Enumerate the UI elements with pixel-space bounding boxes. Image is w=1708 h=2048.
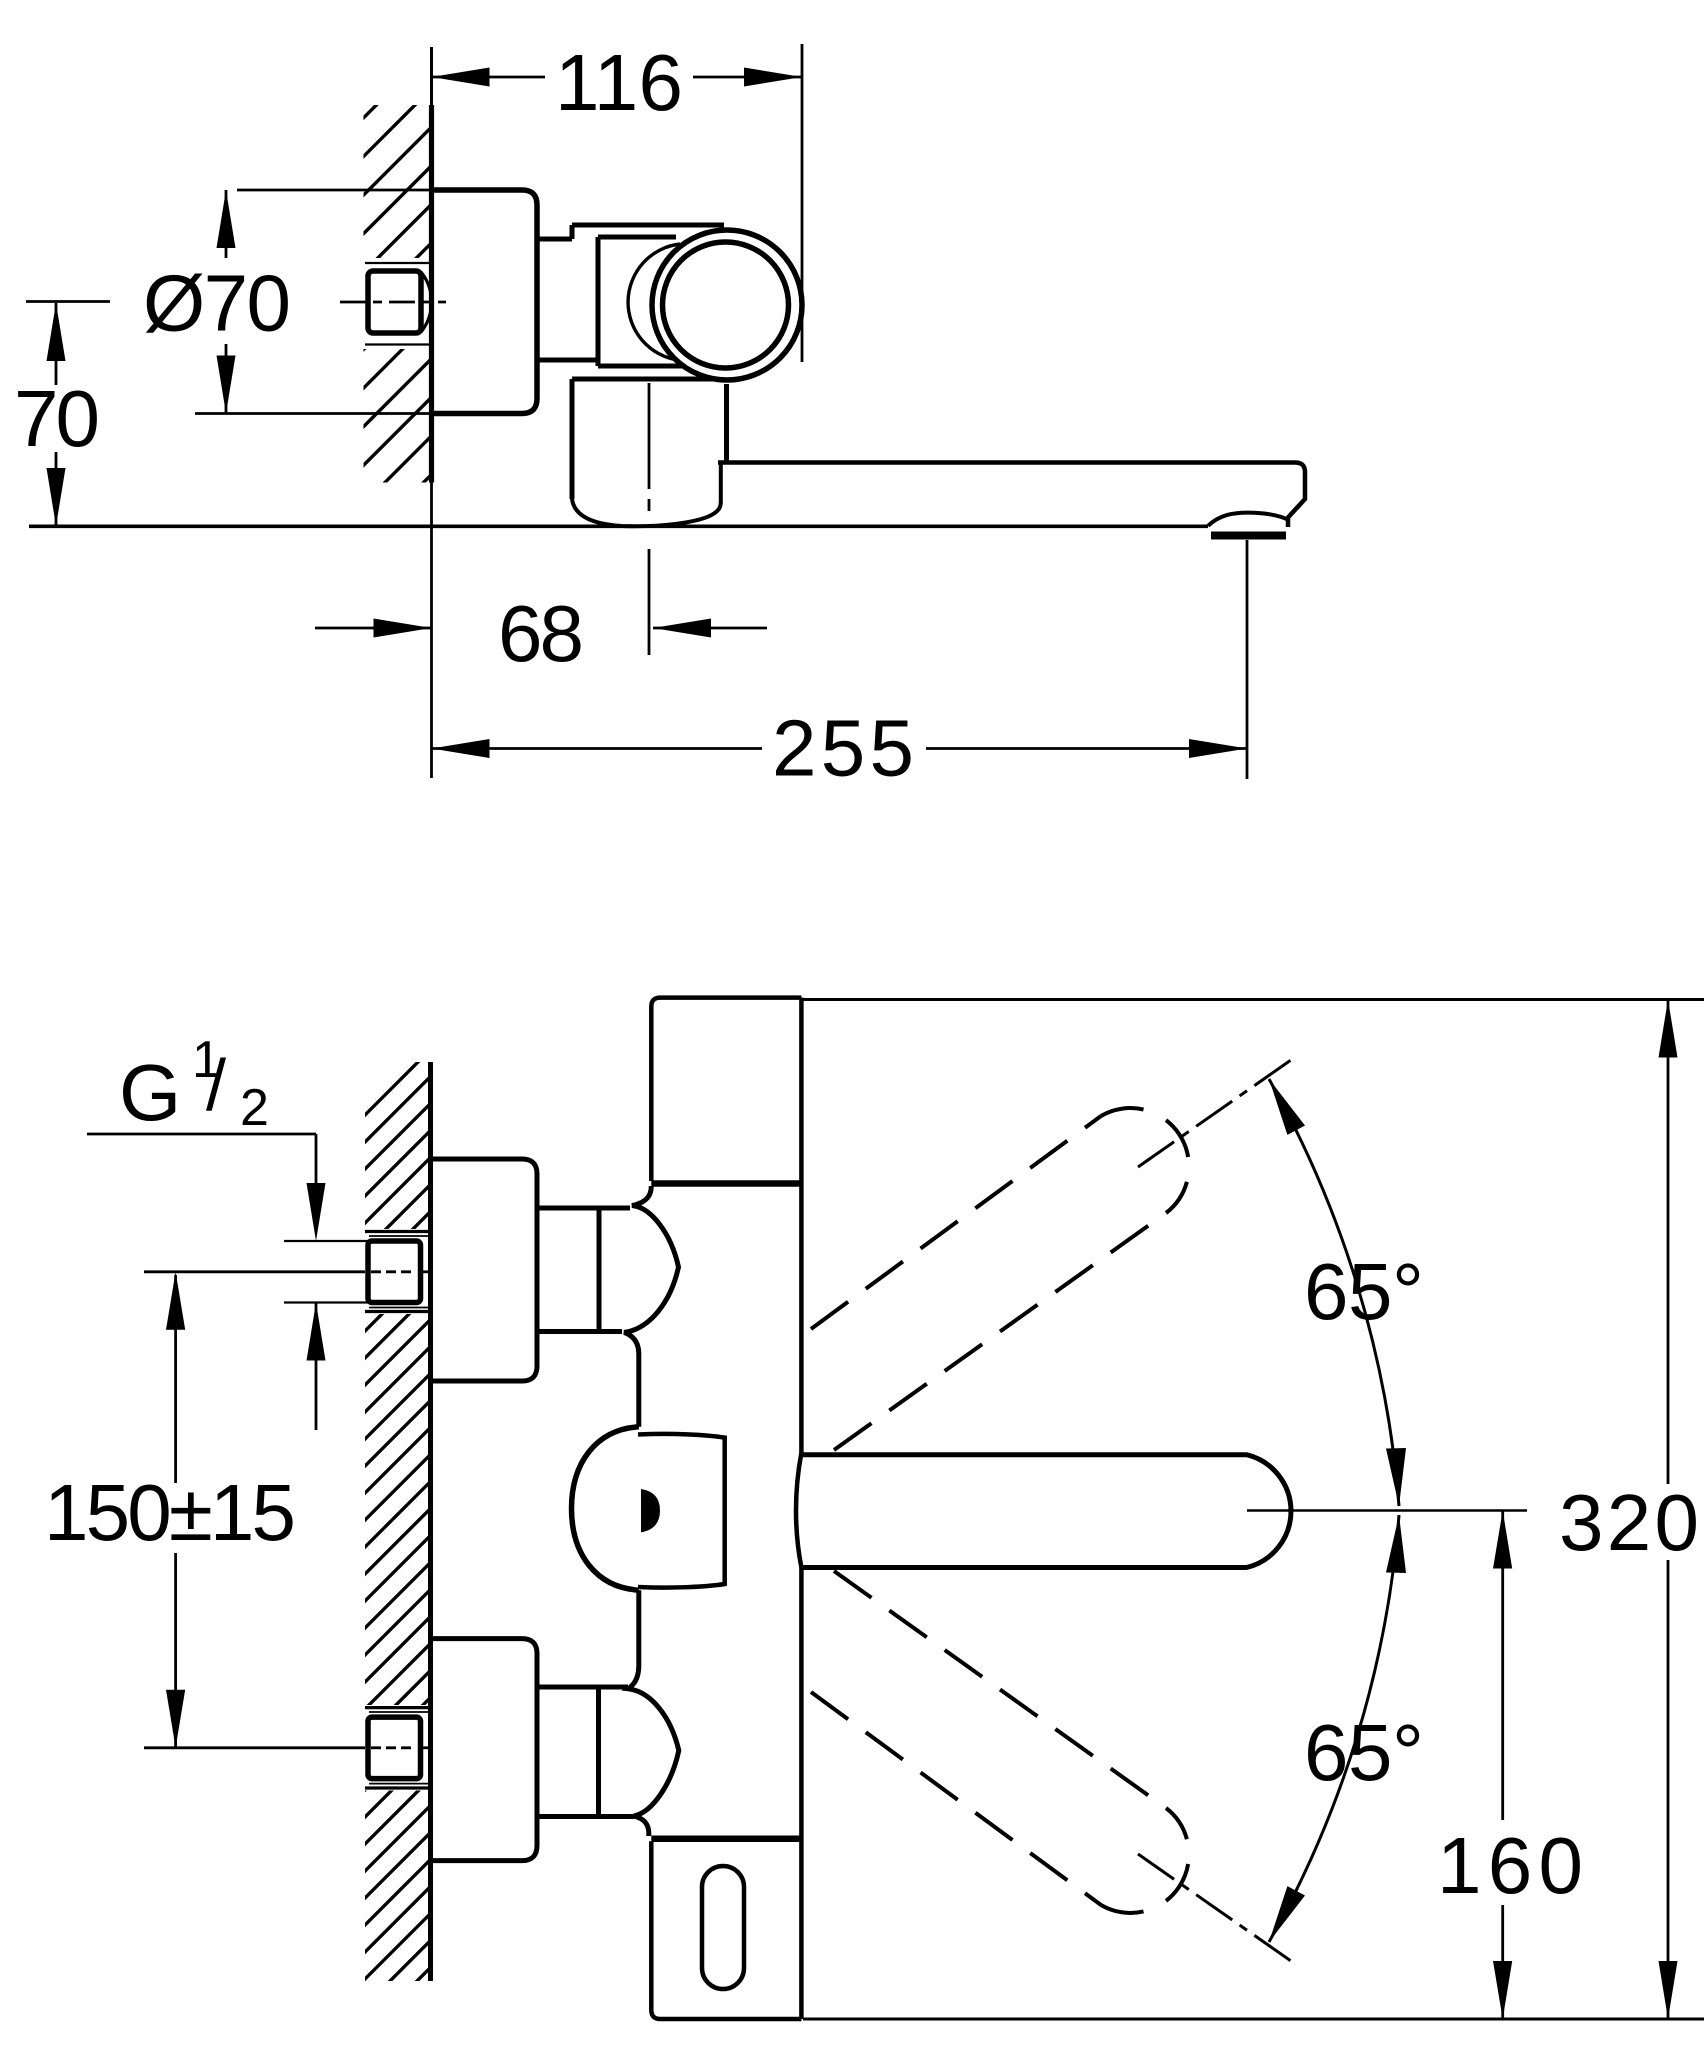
- lower dashed lever position: [811, 1571, 1291, 1961]
- svg-text:65°: 65°: [1304, 1708, 1424, 1797]
- G 1/2 label and leader: [87, 1031, 326, 1430]
- spout tube (top view): [718, 463, 1305, 536]
- lower union nut: [537, 1687, 634, 1817]
- floor reference line: [29, 524, 1208, 528]
- escutcheon flange (top view): [433, 190, 537, 414]
- dimension 68: [315, 589, 767, 678]
- lever base arc: [796, 1453, 801, 1568]
- svg-text:116: 116: [555, 38, 683, 127]
- svg-text:2: 2: [240, 1079, 269, 1137]
- svg-text:65°: 65°: [1304, 1247, 1424, 1336]
- dimension 255: [432, 540, 1248, 793]
- handle outer ring circle: [652, 230, 802, 380]
- dimension 150±15: [44, 1272, 296, 1748]
- wall hatching (top view): [352, 43, 438, 554]
- upper inlet fitting square: [284, 1232, 430, 1312]
- svg-text:255: 255: [772, 704, 914, 793]
- body outline (bottom view): [572, 998, 802, 2019]
- spout pivot center line: [648, 383, 651, 655]
- 65 degree arc upper: [1269, 1079, 1424, 1506]
- dimension 320: [803, 1000, 1704, 2020]
- cartridge dome arc behind handle: [628, 244, 680, 360]
- svg-text:G: G: [119, 1048, 181, 1137]
- wall hatching (bottom view): [352, 1042, 438, 2046]
- upper escutcheon (bottom view): [429, 1159, 537, 1381]
- dimension Ø70: [143, 190, 432, 414]
- upper dashed lever position: [811, 1060, 1291, 1450]
- svg-text:150±15: 150±15: [44, 1468, 296, 1557]
- lever arm (solid, horizontal): [803, 1455, 1291, 1568]
- svg-text:320: 320: [1559, 1478, 1699, 1567]
- svg-text:160: 160: [1437, 1821, 1583, 1910]
- valve block inner face: [598, 237, 690, 366]
- lower inlet fitting square: [365, 1708, 430, 1788]
- wall line (bottom view): [428, 1062, 433, 1981]
- safety stop button (filled): [641, 1489, 660, 1532]
- lever boss front panel: [638, 1434, 725, 1588]
- svg-text:70: 70: [14, 374, 100, 463]
- upper inlet center line: [144, 1270, 431, 1273]
- 65 degree arc lower: [1269, 1515, 1424, 1942]
- spout elbow (top view): [572, 379, 727, 526]
- svg-text:Ø70: Ø70: [143, 259, 291, 348]
- wall line (top view): [430, 47, 433, 778]
- handle inner circle: [663, 242, 789, 368]
- lower inlet center line: [144, 1746, 431, 1749]
- valve body neck: [537, 225, 724, 360]
- mounting slot oval: [702, 1866, 744, 1989]
- lever center line: [1247, 1509, 1527, 1512]
- svg-text:/: /: [206, 1046, 226, 1126]
- svg-text:68: 68: [498, 589, 584, 678]
- upper union nut: [537, 1208, 630, 1332]
- dimension 116: [432, 38, 803, 362]
- lower escutcheon (bottom view): [429, 1639, 537, 1861]
- inlet square fitting (top view): [365, 263, 432, 345]
- dimension 160: [1437, 1511, 1583, 2020]
- dimension 70: [14, 302, 110, 527]
- inlet center line (top view): [340, 301, 446, 304]
